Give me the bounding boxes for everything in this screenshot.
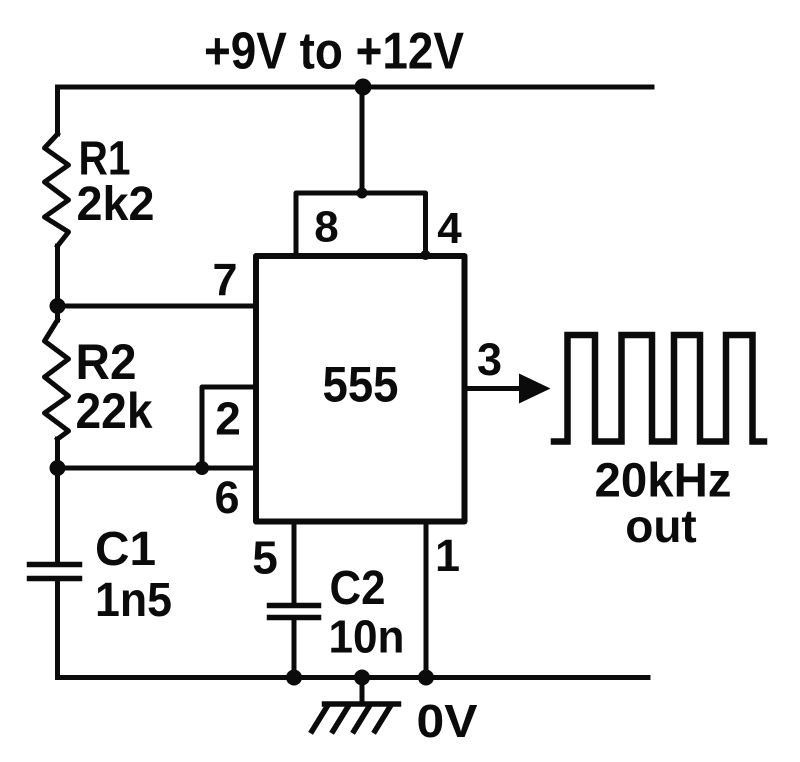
svg-text:7: 7 bbox=[212, 254, 237, 305]
svg-text:2k2: 2k2 bbox=[77, 178, 155, 231]
svg-text:out: out bbox=[625, 500, 697, 552]
arrowhead output bbox=[519, 374, 551, 404]
svg-text:3: 3 bbox=[477, 334, 502, 385]
junction dot at bracket top bbox=[357, 188, 368, 199]
svg-text:1n5: 1n5 bbox=[95, 574, 172, 627]
wire pin 1 bbox=[424, 521, 429, 678]
wire pin 5 bbox=[292, 521, 297, 604]
junction dot supply rail bbox=[355, 79, 372, 96]
wire top supply rail bbox=[58, 85, 653, 90]
resistor R1 bbox=[45, 134, 69, 246]
junction dot node pin7 bbox=[50, 298, 66, 314]
wire supply drop to pins 8 and 4 bbox=[360, 87, 365, 193]
wire pin 6 bbox=[58, 466, 257, 471]
op-amp U1 555 timer IC body bbox=[256, 256, 465, 522]
junction dot pin 4 at IC top bbox=[421, 250, 431, 260]
junction dot pin 2 branch bbox=[195, 461, 209, 475]
svg-text:6: 6 bbox=[214, 472, 239, 523]
ground bbox=[312, 704, 399, 731]
svg-text:1: 1 bbox=[435, 530, 460, 581]
wire below R2 bbox=[55, 439, 60, 562]
svg-text:22k: 22k bbox=[76, 383, 153, 439]
svg-text:+9V to +12V: +9V to +12V bbox=[204, 23, 464, 81]
junction dot node pins 2 and 6 bbox=[50, 460, 66, 476]
wire pin 2 loop bbox=[202, 387, 256, 468]
junction dot pin 1 at rail bbox=[418, 670, 434, 686]
svg-text:10n: 10n bbox=[329, 611, 405, 663]
wire pin 7 bbox=[58, 304, 257, 309]
wire pin 3 output bbox=[465, 386, 522, 391]
svg-text:5: 5 bbox=[252, 532, 278, 584]
junction dot ground stub bbox=[354, 670, 370, 686]
wire between R1 and R2 bbox=[55, 246, 60, 320]
wire ground stub bbox=[360, 678, 365, 703]
wire bottom ground rail bbox=[58, 675, 649, 680]
wire C2 to bottom rail bbox=[292, 620, 297, 678]
svg-text:2: 2 bbox=[215, 393, 241, 445]
square wave symbol bbox=[554, 335, 764, 442]
svg-text:C2: C2 bbox=[330, 562, 386, 615]
svg-text:555: 555 bbox=[323, 357, 399, 413]
resistor R2 bbox=[45, 320, 69, 439]
capacitor C2 bbox=[270, 606, 319, 618]
wire C1 to bottom rail bbox=[55, 581, 60, 678]
capacitor C1 bbox=[30, 565, 80, 579]
junction dot C2 at rail bbox=[286, 670, 302, 686]
wire bracket joining pin 8 and pin 4 bbox=[296, 193, 426, 256]
svg-text:4: 4 bbox=[437, 204, 462, 253]
svg-text:8: 8 bbox=[314, 203, 338, 252]
svg-text:C1: C1 bbox=[95, 523, 156, 576]
wire left rail top segment bbox=[55, 87, 60, 134]
svg-text:R2: R2 bbox=[76, 334, 137, 390]
svg-text:0V: 0V bbox=[417, 695, 478, 747]
